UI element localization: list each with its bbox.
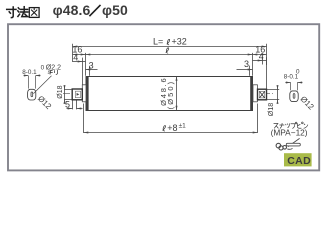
svg-text:8-0.1: 8-0.1 [284, 74, 299, 81]
プ [291, 124, 295, 129]
5 dim [73, 101, 77, 110]
snap pin icon [276, 138, 300, 150]
tube left face (thick) [86, 76, 89, 111]
4 left [78, 60, 83, 62]
svg-text:±1: ±1 [179, 123, 187, 130]
16/l/16 line [73, 53, 78, 55]
svg-text:0: 0 [41, 64, 45, 71]
法 [18, 8, 19, 9]
right shaft end (square) with snap pin [258, 89, 267, 100]
svg-text:(Ø50): (Ø50) [166, 80, 175, 110]
l+8 [84, 131, 89, 133]
svg-text:Ø18: Ø18 [266, 103, 275, 117]
left bearing boss φ18 [82, 85, 86, 102]
svg-text:5: 5 [65, 100, 70, 110]
svg-text:φ48.6: φ48.6 [53, 2, 91, 18]
phi48.6 [176, 76, 178, 80]
CAD badge [284, 153, 312, 166]
4 right dim line [253, 60, 267, 62]
svg-text:4: 4 [73, 53, 78, 63]
4 right [258, 59, 263, 61]
svg-text:L=: L= [153, 36, 163, 46]
dimension graphics group [64, 44, 279, 133]
ピ [297, 123, 301, 128]
l+8 bottom dim [84, 104, 258, 133]
3 left [86, 68, 91, 70]
svg-text:+32: +32 [172, 36, 187, 46]
3 left dim line [86, 69, 98, 71]
svg-text:φ50: φ50 [102, 2, 128, 18]
left shaft section detail [28, 89, 36, 100]
L line ends [73, 45, 78, 47]
3 right dim line [237, 69, 253, 71]
left shaft end (square) [72, 89, 82, 100]
svg-text:4: 4 [259, 52, 264, 62]
phi18 left vertical dim [64, 87, 66, 101]
ン [304, 124, 308, 129]
svg-text:8-0.1: 8-0.1 [22, 69, 37, 76]
roller tube body [86, 77, 253, 111]
図 [29, 8, 39, 18]
phi18 right vertical dim [277, 87, 279, 101]
svg-text:Ø2.2: Ø2.2 [46, 65, 61, 72]
3 right [248, 68, 253, 70]
border frame [8, 24, 319, 170]
right shaft section detail [290, 91, 298, 102]
16 / l / 16 dim line [73, 54, 267, 56]
phi18 left [64, 85, 66, 89]
キリ kana [48, 70, 58, 75]
svg-text:3: 3 [89, 61, 94, 71]
ス [274, 124, 279, 129]
4 left dim line [73, 61, 86, 63]
phi48.6 vertical dim line [176, 76, 178, 110]
tube right face (thick) [250, 76, 253, 111]
right bearing boss φ18 [253, 85, 257, 102]
5 dim [68, 107, 73, 109]
arrowheads [64, 45, 279, 133]
extension lines top [72, 44, 74, 62]
svg-text:Ø18: Ø18 [57, 85, 64, 98]
svg-text:CAD: CAD [287, 155, 311, 167]
ナ [279, 123, 284, 129]
svg-text:3: 3 [244, 59, 249, 69]
ッ [286, 123, 290, 127]
寸 [7, 8, 16, 10]
centerline [63, 93, 273, 95]
svg-text:(MPA−12): (MPA−12) [271, 127, 308, 137]
title kanji 寸法図 (hand-drawn strokes) [7, 7, 39, 18]
snap pin label (kana) スナップピン [274, 122, 308, 129]
svg-text:+8: +8 [167, 123, 177, 133]
phi18 right [277, 85, 279, 89]
L dim line [73, 46, 267, 48]
